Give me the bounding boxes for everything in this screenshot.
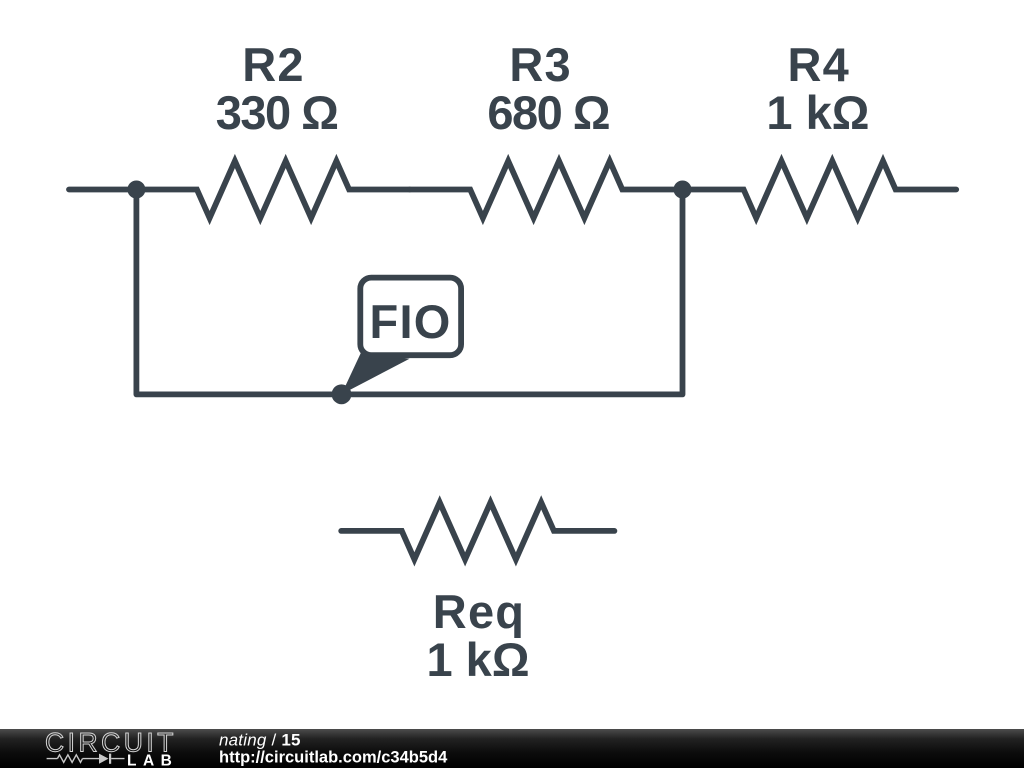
flag FIO anchor dot xyxy=(332,384,352,404)
svg-text:nating / 15: nating / 15 xyxy=(219,731,301,750)
svg-text:R3: R3 xyxy=(509,38,571,91)
wire left stub xyxy=(69,187,137,193)
svg-text:R4: R4 xyxy=(787,38,849,91)
node junction right xyxy=(674,181,692,199)
resistor R2 xyxy=(136,161,409,218)
svg-text:LAB: LAB xyxy=(127,752,178,768)
wire bypass loop xyxy=(136,190,682,395)
svg-text:330 Ω: 330 Ω xyxy=(216,86,338,139)
svg-text:1 kΩ: 1 kΩ xyxy=(426,633,529,686)
svg-text:Req: Req xyxy=(433,585,525,638)
logo schematic diode xyxy=(99,754,109,764)
svg-text:http://circuitlab.com/c34b5d4: http://circuitlab.com/c34b5d4 xyxy=(219,749,448,767)
flag FIO pointer xyxy=(342,352,410,395)
resistor R4 xyxy=(683,161,956,218)
svg-text:1 kΩ: 1 kΩ xyxy=(766,86,869,139)
logo schematic resistor xyxy=(57,755,82,763)
svg-text:R2: R2 xyxy=(242,38,304,91)
svg-text:680 Ω: 680 Ω xyxy=(487,86,609,139)
logo schematic wire xyxy=(47,758,125,760)
node junction left xyxy=(127,181,145,199)
resistor R3 xyxy=(410,161,683,218)
flag FIO box xyxy=(360,278,461,356)
resistor Req xyxy=(341,502,614,559)
svg-text:FIO: FIO xyxy=(370,295,452,348)
